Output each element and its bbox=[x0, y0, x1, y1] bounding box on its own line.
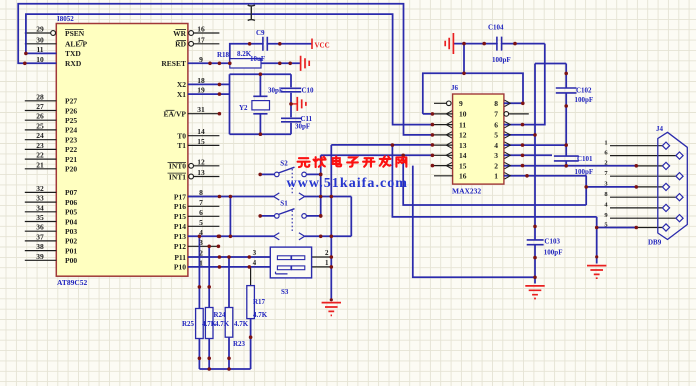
svg-text:P16: P16 bbox=[174, 202, 186, 211]
svg-text:11: 11 bbox=[459, 120, 466, 129]
svg-text:J4: J4 bbox=[656, 125, 664, 133]
svg-text:P12: P12 bbox=[174, 242, 186, 251]
svg-text:15: 15 bbox=[459, 161, 467, 170]
svg-text:21: 21 bbox=[36, 160, 44, 169]
svg-text:4.7K: 4.7K bbox=[215, 320, 230, 328]
svg-text:100pF: 100pF bbox=[575, 168, 594, 176]
svg-text:28: 28 bbox=[36, 92, 44, 101]
svg-text:P26: P26 bbox=[65, 106, 77, 115]
svg-text:5: 5 bbox=[199, 218, 203, 227]
svg-text:13: 13 bbox=[197, 168, 205, 177]
svg-text:30: 30 bbox=[36, 35, 44, 44]
svg-text:P05: P05 bbox=[65, 208, 77, 217]
svg-text:23: 23 bbox=[36, 141, 44, 150]
svg-text:MAX232: MAX232 bbox=[452, 187, 481, 196]
svg-text:8: 8 bbox=[494, 99, 498, 108]
svg-text:6: 6 bbox=[199, 208, 203, 217]
svg-text:DB9: DB9 bbox=[648, 238, 662, 246]
svg-text:30pF: 30pF bbox=[295, 123, 310, 131]
svg-text:R23: R23 bbox=[233, 340, 246, 348]
svg-text:P20: P20 bbox=[65, 165, 77, 174]
svg-text:P24: P24 bbox=[65, 126, 77, 135]
svg-text:P04: P04 bbox=[65, 217, 77, 226]
svg-text:7: 7 bbox=[199, 198, 203, 207]
svg-text:2: 2 bbox=[494, 161, 498, 170]
svg-text:R25: R25 bbox=[182, 320, 195, 328]
svg-text:C102: C102 bbox=[576, 87, 592, 95]
svg-text:C9: C9 bbox=[256, 29, 265, 37]
svg-text:P21: P21 bbox=[65, 155, 77, 164]
svg-text:X1: X1 bbox=[177, 90, 186, 99]
svg-text:14: 14 bbox=[197, 127, 205, 136]
svg-text:P22: P22 bbox=[65, 145, 77, 154]
svg-text:C10: C10 bbox=[302, 87, 315, 95]
svg-text:38: 38 bbox=[36, 242, 44, 251]
svg-text:32: 32 bbox=[36, 184, 44, 193]
svg-text:4: 4 bbox=[199, 228, 203, 237]
svg-text:9: 9 bbox=[459, 99, 463, 108]
svg-text:13: 13 bbox=[459, 141, 467, 150]
svg-text:ALE/P: ALE/P bbox=[65, 40, 88, 49]
svg-text:PSEN: PSEN bbox=[65, 29, 85, 38]
svg-text:35: 35 bbox=[36, 213, 44, 222]
svg-text:P27: P27 bbox=[65, 97, 77, 106]
svg-text:30pF: 30pF bbox=[268, 87, 283, 95]
svg-text:2: 2 bbox=[604, 160, 607, 167]
svg-text:2: 2 bbox=[199, 249, 203, 258]
svg-text:C101: C101 bbox=[577, 155, 593, 163]
svg-text:3: 3 bbox=[199, 238, 203, 247]
svg-text:RESET: RESET bbox=[161, 59, 186, 68]
svg-text:Y2: Y2 bbox=[239, 104, 248, 112]
svg-text:33: 33 bbox=[36, 194, 44, 203]
svg-text:INT1: INT1 bbox=[169, 172, 186, 181]
svg-text:P00: P00 bbox=[65, 256, 77, 265]
svg-text:9: 9 bbox=[199, 55, 203, 64]
svg-text:15: 15 bbox=[197, 137, 205, 146]
svg-text:100pF: 100pF bbox=[575, 96, 594, 104]
svg-text:C103: C103 bbox=[544, 238, 560, 246]
svg-text:1: 1 bbox=[604, 140, 607, 147]
svg-text:S3: S3 bbox=[281, 288, 289, 296]
svg-text:12: 12 bbox=[197, 157, 205, 166]
svg-text:10: 10 bbox=[36, 55, 44, 64]
svg-text:P02: P02 bbox=[65, 237, 77, 246]
svg-text:14: 14 bbox=[459, 151, 467, 160]
svg-text:P06: P06 bbox=[65, 198, 77, 207]
svg-text:8: 8 bbox=[199, 188, 203, 197]
svg-text:22: 22 bbox=[36, 151, 44, 160]
svg-text:P01: P01 bbox=[65, 246, 77, 255]
svg-text:C104: C104 bbox=[488, 24, 504, 32]
svg-text:27: 27 bbox=[36, 102, 44, 111]
svg-text:I8052: I8052 bbox=[57, 15, 74, 23]
svg-text:34: 34 bbox=[36, 203, 44, 212]
svg-text:37: 37 bbox=[36, 232, 44, 241]
svg-text:16: 16 bbox=[459, 172, 467, 181]
svg-text:RXD: RXD bbox=[65, 59, 82, 68]
svg-text:S1: S1 bbox=[280, 200, 288, 208]
svg-text:AT89C52: AT89C52 bbox=[57, 278, 88, 287]
svg-text:R18: R18 bbox=[217, 51, 230, 59]
svg-text:P23: P23 bbox=[65, 136, 77, 145]
svg-text:17: 17 bbox=[197, 35, 205, 44]
svg-text:2: 2 bbox=[325, 249, 329, 257]
svg-text:31: 31 bbox=[197, 105, 205, 114]
svg-text:4.7K: 4.7K bbox=[234, 320, 249, 328]
svg-text:7: 7 bbox=[494, 110, 498, 119]
svg-text:24: 24 bbox=[36, 131, 44, 140]
svg-text:5: 5 bbox=[494, 131, 498, 140]
svg-text:39: 39 bbox=[36, 252, 44, 261]
svg-text:1: 1 bbox=[199, 258, 203, 267]
svg-text:P15: P15 bbox=[174, 212, 186, 221]
svg-text:www.51kaifa.com: www.51kaifa.com bbox=[287, 176, 409, 191]
svg-text:P10: P10 bbox=[174, 263, 186, 272]
svg-text:3: 3 bbox=[253, 249, 257, 257]
svg-text:P25: P25 bbox=[65, 116, 77, 125]
svg-text:36: 36 bbox=[36, 223, 44, 232]
svg-text:4.7K: 4.7K bbox=[253, 311, 268, 319]
svg-text:19: 19 bbox=[197, 86, 205, 95]
svg-text:100pF: 100pF bbox=[544, 249, 563, 257]
svg-text:29: 29 bbox=[36, 25, 44, 34]
svg-text:R24: R24 bbox=[214, 311, 227, 319]
svg-text:16: 16 bbox=[197, 25, 205, 34]
svg-text:J6: J6 bbox=[451, 84, 459, 92]
svg-text:4: 4 bbox=[494, 141, 498, 150]
svg-text:R17: R17 bbox=[253, 298, 266, 306]
svg-text:11: 11 bbox=[36, 45, 43, 54]
svg-text:6: 6 bbox=[494, 120, 498, 129]
svg-text:25: 25 bbox=[36, 121, 44, 130]
svg-text:VCC: VCC bbox=[315, 42, 330, 50]
svg-text:P03: P03 bbox=[65, 227, 77, 236]
svg-text:INT0: INT0 bbox=[169, 162, 186, 171]
svg-text:18: 18 bbox=[197, 76, 205, 85]
svg-text:P07: P07 bbox=[65, 188, 77, 197]
svg-text:P13: P13 bbox=[174, 232, 186, 241]
svg-text:3: 3 bbox=[494, 151, 498, 160]
svg-text:S2: S2 bbox=[280, 160, 288, 168]
svg-text:TXD: TXD bbox=[65, 49, 81, 58]
svg-text:T1: T1 bbox=[177, 141, 186, 150]
svg-text:26: 26 bbox=[36, 112, 44, 121]
svg-text:X2: X2 bbox=[177, 80, 186, 89]
svg-text:RD: RD bbox=[175, 40, 186, 49]
svg-text:12: 12 bbox=[459, 131, 467, 140]
svg-text:100pF: 100pF bbox=[492, 56, 511, 64]
svg-text:P11: P11 bbox=[174, 253, 186, 262]
svg-text:10: 10 bbox=[459, 110, 467, 119]
svg-text:P14: P14 bbox=[174, 222, 186, 231]
svg-text:4: 4 bbox=[253, 259, 257, 267]
svg-text:P17: P17 bbox=[174, 192, 186, 201]
svg-text:1: 1 bbox=[494, 172, 498, 181]
svg-text:WR: WR bbox=[173, 29, 187, 38]
svg-text:1: 1 bbox=[325, 259, 329, 267]
svg-text:T0: T0 bbox=[177, 132, 186, 141]
svg-text:EA/VP: EA/VP bbox=[164, 110, 187, 119]
svg-text:10uF: 10uF bbox=[250, 55, 265, 63]
